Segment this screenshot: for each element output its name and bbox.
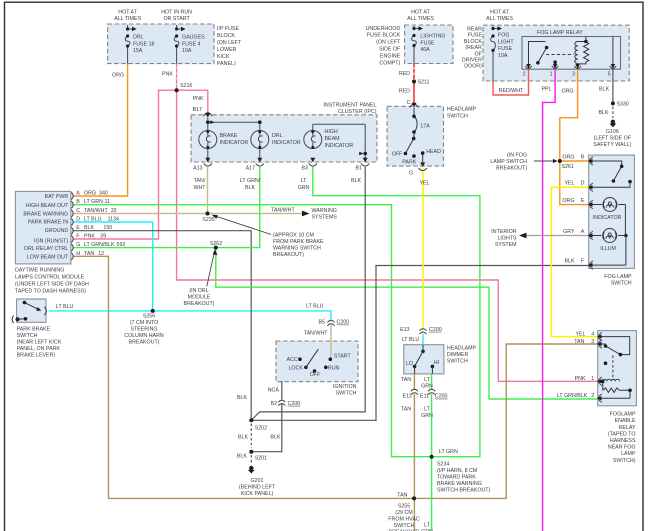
svg-text:ORG: ORG <box>112 72 124 78</box>
svg-text:B: B <box>581 154 585 160</box>
svg-text:DRIVER: DRIVER <box>462 58 482 64</box>
svg-text:LT BLU: LT BLU <box>402 337 420 343</box>
svg-text:(IN FOG: (IN FOG <box>507 153 527 159</box>
svg-text:HOT IN RUN: HOT IN RUN <box>161 10 192 16</box>
svg-text:C200: C200 <box>337 320 350 326</box>
svg-text:17A: 17A <box>420 123 430 129</box>
svg-text:LT: LT <box>424 522 431 528</box>
svg-text:LT BLU: LT BLU <box>306 304 324 310</box>
svg-text:SYSTEM: SYSTEM <box>495 242 517 248</box>
svg-text:LT GRN/BLK: LT GRN/BLK <box>557 393 588 399</box>
svg-text:(7 CM INTO: (7 CM INTO <box>130 320 158 326</box>
svg-text:MODULE: MODULE <box>188 295 211 301</box>
svg-text:ORG: ORG <box>561 89 573 95</box>
svg-text:FUSE 18: FUSE 18 <box>133 42 155 48</box>
svg-text:KICK PANEL): KICK PANEL) <box>241 491 274 497</box>
svg-text:S235: S235 <box>202 217 214 223</box>
svg-text:(REAR: (REAR <box>465 45 482 51</box>
svg-text:ORG: ORG <box>84 191 96 197</box>
svg-text:340: 340 <box>99 191 108 197</box>
svg-text:BRAKE WARNING: BRAKE WARNING <box>437 481 482 487</box>
svg-text:TAN: TAN <box>574 339 584 345</box>
svg-text:G201: G201 <box>251 478 264 484</box>
svg-text:SYSTEMS: SYSTEMS <box>312 215 338 221</box>
svg-text:C: C <box>407 100 411 106</box>
svg-text:NEAR FOG: NEAR FOG <box>608 445 636 451</box>
svg-text:B3: B3 <box>302 166 309 172</box>
svg-text:BLK: BLK <box>270 435 280 441</box>
svg-text:ENABLE: ENABLE <box>615 418 636 424</box>
svg-text:INDICATOR: INDICATOR <box>593 215 622 221</box>
svg-text:(NEAR LEFT KICK: (NEAR LEFT KICK <box>17 340 62 346</box>
svg-text:START: START <box>334 353 352 359</box>
svg-text:RELAY: RELAY <box>619 425 636 431</box>
svg-text:INSTRUMENT PANEL: INSTRUMENT PANEL <box>323 103 376 109</box>
svg-text:4: 4 <box>591 331 594 337</box>
svg-text:PANEL, ON PARK: PANEL, ON PARK <box>17 346 61 352</box>
svg-text:PARK: PARK <box>402 160 416 166</box>
svg-text:SWITCH: SWITCH <box>336 391 357 397</box>
svg-text:TAN: TAN <box>401 377 411 383</box>
svg-text:SWITCH: SWITCH <box>394 523 415 529</box>
svg-text:OFF: OFF <box>392 152 403 158</box>
svg-text:LOWER: LOWER <box>217 47 237 53</box>
svg-text:TAN: TAN <box>401 407 411 413</box>
svg-text:D: D <box>581 181 585 187</box>
svg-text:SWITCH: SWITCH <box>611 280 632 286</box>
svg-text:PANEL): PANEL) <box>217 61 236 67</box>
svg-text:PNK: PNK <box>84 234 95 240</box>
svg-text:B5: B5 <box>319 320 326 326</box>
svg-text:BRAKE LEVER): BRAKE LEVER) <box>17 353 56 359</box>
svg-text:RUN: RUN <box>328 365 340 371</box>
svg-text:LAMPS CONTROL MODULE: LAMPS CONTROL MODULE <box>15 275 85 281</box>
svg-text:YEL: YEL <box>419 181 429 187</box>
svg-text:592: 592 <box>117 242 126 248</box>
svg-text:S211: S211 <box>418 80 430 86</box>
svg-text:LAMP SWITCH: LAMP SWITCH <box>490 159 527 165</box>
svg-text:FUSE: FUSE <box>468 33 483 39</box>
svg-text:BRAKE WARNING: BRAKE WARNING <box>23 211 68 217</box>
svg-text:DRL RELAY CTRL: DRL RELAY CTRL <box>24 246 68 252</box>
svg-text:RED/WHT: RED/WHT <box>499 88 524 94</box>
svg-text:TOWARD PARK: TOWARD PARK <box>437 475 476 481</box>
svg-text:HEADLAMP: HEADLAMP <box>447 346 477 352</box>
svg-text:CLUSTER (IPC): CLUSTER (IPC) <box>338 109 377 115</box>
svg-text:(IN DRL: (IN DRL <box>189 288 208 294</box>
svg-text:DAYTIME RUNNING: DAYTIME RUNNING <box>15 268 64 274</box>
svg-text:BREAKOUT): BREAKOUT) <box>129 340 160 346</box>
svg-text:10A: 10A <box>182 48 192 54</box>
svg-text:BAT PWR: BAT PWR <box>45 194 69 200</box>
svg-text:TAN/WHT: TAN/WHT <box>84 208 108 214</box>
svg-text:TAN: TAN <box>84 251 94 257</box>
svg-text:YEL: YEL <box>575 331 585 337</box>
svg-text:PNK: PNK <box>162 72 173 78</box>
svg-text:39: 39 <box>100 234 106 240</box>
svg-text:FUSE: FUSE <box>498 46 513 52</box>
svg-text:G106: G106 <box>606 129 619 135</box>
svg-text:B17: B17 <box>193 107 202 113</box>
svg-text:1: 1 <box>550 72 553 78</box>
svg-text:TAPED TO DASH HARNESS): TAPED TO DASH HARNESS) <box>15 289 86 295</box>
svg-text:BLOCK: BLOCK <box>464 39 482 45</box>
svg-text:H: H <box>76 251 80 257</box>
svg-text:LT BLU: LT BLU <box>84 217 102 223</box>
svg-text:ENGINE: ENGINE <box>380 53 401 59</box>
svg-text:E: E <box>581 198 585 204</box>
svg-text:LT: LT <box>424 377 431 383</box>
svg-text:SIDE OF: SIDE OF <box>379 47 401 53</box>
svg-text:RED: RED <box>399 71 410 77</box>
svg-text:G: G <box>409 170 413 176</box>
svg-text:BLOCK: BLOCK <box>217 33 235 39</box>
svg-text:OR START: OR START <box>163 16 190 22</box>
svg-text:FOG: FOG <box>498 33 509 39</box>
svg-text:(APPROX 10 CM: (APPROX 10 CM <box>273 233 314 239</box>
svg-text:ORG: ORG <box>562 154 574 160</box>
svg-text:SWITCH): SWITCH) <box>613 458 636 464</box>
svg-text:IGNITION: IGNITION <box>333 384 357 390</box>
svg-text:3: 3 <box>572 72 575 78</box>
svg-text:E13: E13 <box>400 327 409 333</box>
svg-text:TAN/WHT: TAN/WHT <box>304 330 328 336</box>
svg-text:(I/P HARN, 8 CM: (I/P HARN, 8 CM <box>437 468 477 474</box>
svg-text:(UNDER LEFT SIDE OF DASH: (UNDER LEFT SIDE OF DASH <box>15 282 89 288</box>
svg-text:FROM PARK BRAKE: FROM PARK BRAKE <box>273 239 324 245</box>
svg-text:HOT AT: HOT AT <box>490 10 509 16</box>
svg-text:S256: S256 <box>143 313 155 319</box>
svg-text:S262: S262 <box>210 241 222 247</box>
svg-text:(29 CM: (29 CM <box>395 510 412 516</box>
svg-text:ALL TIMES: ALL TIMES <box>407 16 434 22</box>
svg-text:FOG LAMP: FOG LAMP <box>604 274 632 280</box>
svg-text:SAFETY WALL): SAFETY WALL) <box>593 142 631 148</box>
svg-text:WARNING: WARNING <box>312 208 337 214</box>
svg-text:40A: 40A <box>420 47 430 53</box>
svg-text:YEL: YEL <box>564 181 574 187</box>
svg-text:FROM HVAC: FROM HVAC <box>388 517 420 523</box>
svg-text:BLK: BLK <box>245 185 255 191</box>
svg-text:OF: OF <box>475 51 483 57</box>
svg-text:LOW BEAM OUT: LOW BEAM OUT <box>27 255 69 261</box>
svg-text:PPL: PPL <box>541 86 551 92</box>
svg-text:E11: E11 <box>420 394 429 400</box>
svg-text:2: 2 <box>591 393 594 399</box>
svg-text:A17: A17 <box>246 166 255 172</box>
svg-text:S201: S201 <box>255 456 267 462</box>
svg-text:DOOR): DOOR) <box>464 64 482 70</box>
svg-text:INDICATOR: INDICATOR <box>325 143 354 149</box>
svg-text:BLK: BLK <box>351 178 361 184</box>
svg-text:(TAPED TO: (TAPED TO <box>608 431 636 437</box>
svg-text:1: 1 <box>591 376 594 382</box>
svg-text:HARNESS: HARNESS <box>610 438 636 444</box>
svg-text:SWITCH: SWITCH <box>447 113 468 119</box>
svg-text:BLK: BLK <box>237 395 247 401</box>
svg-text:OFF: OFF <box>310 372 321 378</box>
svg-text:A: A <box>76 191 80 197</box>
svg-text:E12: E12 <box>403 394 412 400</box>
svg-text:12: 12 <box>98 251 104 257</box>
svg-text:LOCK: LOCK <box>288 365 303 371</box>
svg-text:15A: 15A <box>133 48 143 54</box>
svg-text:RED: RED <box>399 88 410 94</box>
svg-text:FUSE 4: FUSE 4 <box>182 42 201 48</box>
svg-text:(BEHIND LEFT: (BEHIND LEFT <box>239 484 276 490</box>
svg-text:S261: S261 <box>562 164 574 170</box>
svg-text:NCA: NCA <box>268 388 280 394</box>
svg-text:E: E <box>76 225 80 231</box>
svg-text:HIGH: HIGH <box>325 129 338 135</box>
svg-text:S255: S255 <box>398 504 410 510</box>
svg-text:INDICATOR: INDICATOR <box>220 140 249 146</box>
svg-text:LT GRN: LT GRN <box>439 449 458 455</box>
svg-text:HEAD: HEAD <box>426 149 441 155</box>
svg-text:PNK: PNK <box>193 96 204 102</box>
svg-text:A13: A13 <box>193 166 202 172</box>
svg-text:LO: LO <box>406 361 413 367</box>
svg-text:D: D <box>76 217 80 223</box>
svg-text:S234: S234 <box>437 462 449 468</box>
svg-text:1134: 1134 <box>108 217 119 223</box>
svg-text:DIMMER: DIMMER <box>447 352 469 358</box>
svg-text:LAMP: LAMP <box>621 451 636 457</box>
svg-text:PNK: PNK <box>575 376 586 382</box>
svg-text:S216: S216 <box>180 83 192 89</box>
svg-text:B: B <box>76 199 80 205</box>
svg-text:11: 11 <box>105 199 111 205</box>
svg-text:S330: S330 <box>617 102 629 108</box>
svg-text:BREAKOUT): BREAKOUT) <box>273 252 304 258</box>
svg-text:I/P FUSE: I/P FUSE <box>217 26 239 32</box>
svg-text:(ON LEFT: (ON LEFT <box>376 40 401 46</box>
svg-text:BLK: BLK <box>238 435 248 441</box>
svg-text:ALL TIMES: ALL TIMES <box>114 16 141 22</box>
svg-text:FUSE: FUSE <box>420 40 435 46</box>
svg-text:2: 2 <box>523 72 526 78</box>
svg-text:BLK: BLK <box>599 86 609 92</box>
svg-text:IGN (RUN/ST): IGN (RUN/ST) <box>34 238 68 244</box>
svg-text:BREAKOUT): BREAKOUT) <box>496 165 527 171</box>
svg-text:BLK: BLK <box>564 259 574 265</box>
svg-text:150: 150 <box>103 225 112 231</box>
svg-text:BLK: BLK <box>237 454 247 460</box>
svg-text:C200: C200 <box>288 401 301 407</box>
svg-text:INTERIOR: INTERIOR <box>491 229 516 235</box>
svg-text:BREAKOUT): BREAKOUT) <box>184 301 215 307</box>
svg-text:LT: LT <box>301 178 308 184</box>
svg-text:UNDERHOOD: UNDERHOOD <box>366 26 401 32</box>
svg-text:HOT AT: HOT AT <box>118 10 137 16</box>
svg-text:LT BLU: LT BLU <box>56 304 74 310</box>
svg-text:PARK BRAKE IN: PARK BRAKE IN <box>28 220 68 226</box>
svg-text:(ON LEFT: (ON LEFT <box>217 40 242 46</box>
svg-text:BRAKE: BRAKE <box>220 133 238 139</box>
svg-text:SWITCH BREAKOUT): SWITCH BREAKOUT) <box>437 488 490 494</box>
svg-text:33: 33 <box>111 208 117 214</box>
svg-text:GAUGES: GAUGES <box>182 35 205 41</box>
svg-text:TAN/WHT: TAN/WHT <box>271 208 295 214</box>
svg-text:B2: B2 <box>271 401 278 407</box>
svg-text:B1: B1 <box>356 166 363 172</box>
svg-text:LT: LT <box>424 407 431 413</box>
svg-text:5: 5 <box>608 72 611 78</box>
svg-text:DRL: DRL <box>133 35 144 41</box>
svg-text:LT GRN: LT GRN <box>84 199 103 205</box>
svg-text:PARK BRAKE: PARK BRAKE <box>17 326 51 332</box>
svg-text:LT GRN/: LT GRN/ <box>240 178 261 184</box>
svg-text:GROUND: GROUND <box>45 228 69 234</box>
svg-text:10A: 10A <box>498 53 508 59</box>
svg-text:GRN: GRN <box>421 413 433 419</box>
svg-text:GRN: GRN <box>298 185 310 191</box>
svg-text:KICK: KICK <box>217 54 230 60</box>
svg-text:WHT: WHT <box>193 185 206 191</box>
svg-text:DRL: DRL <box>272 133 283 139</box>
svg-text:FOG LAMP RELAY: FOG LAMP RELAY <box>537 30 583 36</box>
svg-text:FUSE BLOCK: FUSE BLOCK <box>367 33 401 39</box>
svg-text:GRY: GRY <box>563 229 575 235</box>
svg-text:C200: C200 <box>435 394 448 400</box>
svg-text:A: A <box>581 229 585 235</box>
svg-text:FOGLAMP: FOGLAMP <box>610 412 636 418</box>
svg-text:HEADLAMP: HEADLAMP <box>447 107 477 113</box>
svg-text:WARNING SWITCH: WARNING SWITCH <box>273 246 321 252</box>
svg-text:INDICATOR: INDICATOR <box>272 140 301 146</box>
svg-text:STEERING: STEERING <box>130 327 157 333</box>
svg-text:G: G <box>76 242 80 248</box>
svg-text:ORG: ORG <box>562 198 574 204</box>
svg-text:S202: S202 <box>255 425 267 431</box>
svg-text:COMPT): COMPT) <box>379 60 400 66</box>
svg-text:LIGHTS: LIGHTS <box>497 236 517 242</box>
svg-text:LIGHT: LIGHT <box>498 39 514 45</box>
svg-text:BEAM: BEAM <box>325 136 340 142</box>
svg-text:GRN: GRN <box>421 384 433 390</box>
svg-text:BLK: BLK <box>84 225 94 231</box>
svg-text:(LEFT SIDE OF: (LEFT SIDE OF <box>594 136 632 142</box>
svg-text:HIGH BEAM OUT: HIGH BEAM OUT <box>26 203 69 209</box>
svg-text:TAN: TAN <box>397 492 407 498</box>
svg-text:HOT AT: HOT AT <box>411 10 430 16</box>
svg-text:REAR: REAR <box>467 27 482 33</box>
svg-text:SWITCH: SWITCH <box>17 333 38 339</box>
svg-text:LT GRN/BLK: LT GRN/BLK <box>84 242 115 248</box>
svg-text:LIGHTING: LIGHTING <box>420 33 445 39</box>
svg-text:HI: HI <box>434 360 439 366</box>
svg-text:ALL TIMES: ALL TIMES <box>486 16 513 22</box>
svg-text:C: C <box>76 208 80 214</box>
svg-text:ACC: ACC <box>287 357 298 363</box>
svg-text:C200: C200 <box>429 327 442 333</box>
svg-text:SWITCH: SWITCH <box>447 359 468 365</box>
svg-text:BLK: BLK <box>598 110 608 116</box>
svg-text:TAN/: TAN/ <box>194 178 206 184</box>
svg-text:ILLUM: ILLUM <box>600 246 616 252</box>
svg-text:3: 3 <box>591 339 594 345</box>
svg-text:COLUMN HARN: COLUMN HARN <box>124 333 164 339</box>
